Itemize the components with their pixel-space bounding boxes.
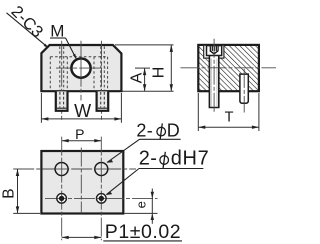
hole D left [55, 163, 68, 176]
hole D right center cross [100, 163, 102, 176]
screw head [207, 46, 222, 56]
hole D left center cross [61, 163, 63, 176]
extension line W left [40, 93, 42, 123]
centerline right column front [101, 41, 103, 122]
label 2-C3 arrowhead [44, 44, 49, 48]
label 2-phidH7 arrowhead [106, 192, 112, 195]
svg-text:A: A [129, 72, 146, 83]
left leg bottom inner line [57, 107, 66, 109]
label M underline [50, 37, 66, 39]
screw thread lines [210, 59, 212, 107]
extension line H top [115, 44, 174, 46]
right leg thread dash b [103, 92, 105, 107]
dimension line P1 [62, 236, 102, 238]
centerline mid bottom view [80, 148, 82, 214]
svg-text:2-C3: 2-C3 [8, 3, 47, 42]
counterbore walls and seat [204, 46, 224, 58]
svg-text:e: e [133, 201, 148, 208]
centerline row1 [13, 168, 136, 170]
right leg outline [97, 91, 109, 110]
hidden hole line left b [63, 46, 65, 90]
hole M circle [71, 59, 90, 78]
hole D right [95, 163, 108, 176]
hole dH7 right [97, 194, 107, 204]
label 2-phiD underline [140, 138, 181, 140]
svg-text:D: D [167, 120, 180, 140]
hidden counterbore line left-outer [49, 57, 51, 91]
svg-text:2-: 2- [139, 148, 157, 170]
extension line A top [135, 67, 150, 69]
phi symbol D [157, 127, 166, 136]
label 2-phidH7 leader [106, 169, 139, 195]
screw socket bars [209, 46, 211, 51]
dimension line A [144, 68, 146, 91]
dimension line B [17, 169, 19, 213]
extension line e bottom [125, 212, 158, 214]
svg-text:dH7: dH7 [171, 148, 210, 170]
hole dH7 right center dot [99, 196, 104, 201]
hidden counterbore line right-inner [93, 57, 95, 91]
dimension line P [62, 140, 102, 142]
hole dH7 left [57, 194, 67, 204]
svg-text:B: B [1, 188, 18, 198]
extension line T left [197, 93, 199, 131]
dowel pin [240, 74, 248, 103]
extension line T right [258, 93, 260, 131]
centerline right column bottom view [100, 137, 102, 241]
svg-text:P: P [75, 126, 84, 142]
screw shaft outline [209, 56, 218, 108]
label M leader [66, 38, 76, 58]
dimension line T [198, 126, 259, 128]
right leg thread dash a [100, 92, 102, 107]
hidden counterbore line left-inner [66, 57, 68, 91]
hole dH7 left center cross [61, 194, 63, 203]
centerline left column front [61, 41, 63, 122]
bottom view body [41, 151, 123, 214]
extension line B bottom [13, 212, 40, 214]
svg-text:T: T [225, 110, 234, 126]
dimension line W [41, 118, 121, 120]
svg-text:H: H [151, 67, 168, 79]
label 2-phidH7 underline [139, 168, 203, 170]
label 2-phiD leader [107, 139, 139, 162]
side view body with hatch [198, 45, 259, 91]
svg-text:W: W [74, 101, 91, 121]
centerline mid vertical front [80, 41, 82, 101]
left leg thread dash b [63, 92, 65, 107]
hidden hole line right b [103, 46, 105, 90]
side view horizontal centerline [181, 67, 277, 69]
centerline row2 [45, 197, 158, 199]
label 2-phiD arrowhead [107, 160, 114, 163]
hidden counterbore line right-outer [107, 57, 109, 91]
screw shaft white channel [209, 56, 218, 108]
label 2-C3 leader [7, 13, 48, 48]
dimension line e [151, 189, 153, 224]
centerline left column bottom view [61, 137, 63, 241]
counterbore white pocket [204, 46, 224, 58]
svg-text:2-: 2- [136, 120, 153, 140]
svg-text:P1±0.02: P1±0.02 [105, 221, 181, 243]
front view body [41, 45, 121, 91]
extension line W right [120, 93, 122, 123]
hole dH7 left center dot [59, 196, 64, 201]
screw socket chevron [210, 51, 218, 54]
dimension line H [170, 45, 172, 91]
hole dH7 right center cross [100, 194, 102, 203]
pin centerline [243, 69, 245, 113]
hidden hole line right a [100, 46, 102, 90]
left leg thread dash a [59, 92, 61, 107]
right leg bottom inner line [98, 107, 107, 109]
screw centerline [213, 39, 215, 113]
P1 underline [103, 240, 182, 242]
hole M centerline crossing [80, 58, 82, 78]
label M arrowhead [73, 54, 76, 59]
centerline hole horizontal front [56, 67, 106, 69]
left leg outline [56, 91, 68, 110]
hidden counterbore depth line [50, 56, 107, 58]
extension line A-H bottom [123, 90, 174, 92]
phi symbol d [160, 156, 169, 165]
hidden hole line left a [59, 46, 61, 90]
